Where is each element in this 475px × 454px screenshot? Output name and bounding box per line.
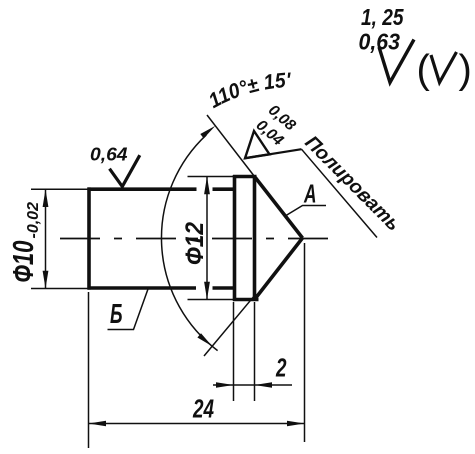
cylinder left edge: [87, 187, 91, 289]
label Б leader: [108, 289, 149, 330]
dimension line: [89, 423, 305, 425]
big check symbol: [379, 40, 414, 83]
dimension 2 (collar width): [213, 302, 292, 401]
arrow Ф10 up: [43, 189, 49, 207]
dimension line: [206, 177, 208, 300]
svg-text:Б: Б: [110, 298, 123, 329]
angle dimension 110±15: [161, 115, 256, 356]
arrow Ф12 down: [204, 282, 210, 300]
extension line right: [254, 302, 256, 401]
svg-text:2: 2: [275, 355, 287, 383]
roughness triangle symbol: [245, 131, 270, 158]
svg-text:24: 24: [192, 396, 214, 424]
cylinder top edge: [88, 187, 197, 191]
dimension 24 (overall length): [89, 243, 305, 448]
centerline (axis): [60, 238, 333, 240]
roughness mark 0,64 on cylinder: [110, 155, 140, 186]
arrow 24 left: [89, 421, 107, 427]
extension line left: [233, 302, 235, 401]
arrow Ф12 up: [204, 177, 210, 195]
angle value 110°±15': [214, 87, 338, 109]
cone tip: [255, 177, 303, 300]
cylinder bottom edge: [88, 286, 197, 290]
arrow 2 left: [216, 382, 234, 388]
angle dimension arc: [161, 135, 217, 351]
cylinder body outline (Ф10): [88, 187, 237, 289]
arc arrow lower: [197, 333, 212, 346]
arrow 2 right: [255, 382, 273, 388]
extension line left: [88, 292, 90, 448]
arc arrow upper: [200, 126, 215, 139]
arrow Ф10 down: [43, 271, 49, 289]
cone upper edge: [255, 177, 303, 239]
svg-text:): ): [459, 48, 472, 92]
svg-text:А: А: [303, 179, 316, 209]
dimension Ф12: [188, 177, 234, 300]
extension line top: [188, 176, 234, 178]
collar top edge: [233, 175, 257, 179]
collar right edge: [253, 175, 257, 301]
svg-text:(: (: [417, 48, 431, 92]
extension line right: [304, 243, 306, 442]
upper extension of cone edge: [207, 115, 255, 177]
check symbol: [110, 155, 140, 186]
extension line top: [31, 188, 89, 190]
collar bottom edge: [233, 298, 259, 302]
polish note leader shelf: [245, 149, 302, 158]
lower extension of cone edge: [204, 294, 256, 356]
extension line bottom: [188, 299, 234, 301]
collar (Ф12): [233, 175, 259, 301]
collar left edge: [233, 175, 237, 301]
cone lower edge: [255, 238, 303, 300]
svg-text:0,64: 0,64: [90, 144, 128, 165]
svg-text:1, 25: 1, 25: [361, 4, 404, 30]
extension line bottom: [31, 288, 89, 290]
small check in parens: [431, 52, 457, 83]
svg-text:Ф12: Ф12: [181, 222, 209, 265]
dimension line: [45, 189, 47, 288]
dimension line: [213, 384, 292, 386]
label A leader: [286, 206, 326, 216]
arrow 24 right: [287, 421, 305, 427]
polish note slanted line: [302, 149, 378, 237]
dimension Ф10-0,02: [31, 189, 89, 288]
